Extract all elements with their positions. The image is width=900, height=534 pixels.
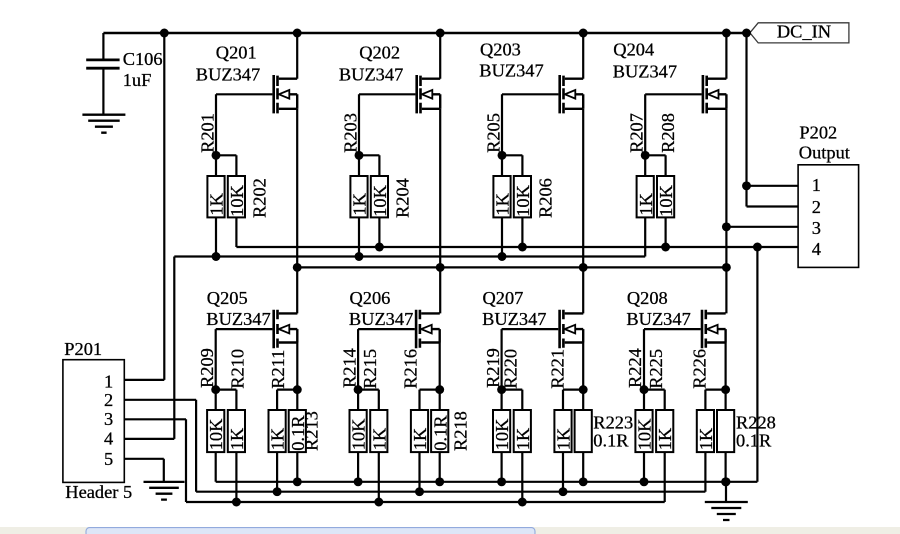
- svg-text:1K: 1K: [369, 427, 389, 450]
- svg-text:BUZ347: BUZ347: [206, 309, 270, 329]
- svg-text:10K: 10K: [513, 184, 533, 216]
- svg-text:R207: R207: [627, 113, 647, 153]
- svg-text:R226: R226: [690, 349, 710, 389]
- svg-text:R206: R206: [535, 178, 555, 218]
- svg-text:R225: R225: [646, 349, 666, 389]
- svg-text:4: 4: [104, 429, 113, 449]
- svg-text:R202: R202: [249, 178, 269, 218]
- svg-text:R215: R215: [360, 349, 380, 389]
- svg-text:Q203: Q203: [480, 39, 521, 59]
- svg-text:R209: R209: [197, 348, 217, 388]
- svg-text:1K: 1K: [513, 427, 533, 450]
- svg-text:1K: 1K: [636, 192, 656, 215]
- svg-text:2: 2: [812, 197, 821, 217]
- svg-text:BUZ347: BUZ347: [613, 62, 677, 82]
- svg-text:1K: 1K: [696, 427, 716, 450]
- svg-text:Q202: Q202: [359, 43, 400, 63]
- svg-text:1K: 1K: [655, 427, 675, 450]
- svg-text:0.1R: 0.1R: [736, 430, 772, 450]
- svg-text:R203: R203: [340, 113, 360, 153]
- svg-text:5: 5: [104, 449, 113, 469]
- svg-text:BUZ347: BUZ347: [482, 309, 546, 329]
- svg-text:BUZ347: BUZ347: [479, 61, 543, 81]
- svg-text:BUZ347: BUZ347: [339, 65, 403, 85]
- svg-text:1K: 1K: [554, 427, 574, 450]
- svg-text:P202: P202: [799, 123, 837, 143]
- svg-text:2: 2: [104, 390, 113, 410]
- svg-text:Output: Output: [799, 143, 850, 163]
- svg-text:10K: 10K: [370, 184, 390, 216]
- svg-text:1K: 1K: [410, 427, 430, 450]
- svg-text:0.1R: 0.1R: [430, 415, 450, 451]
- svg-text:0.1R: 0.1R: [593, 430, 629, 450]
- svg-text:BUZ347: BUZ347: [626, 309, 690, 329]
- svg-text:R204: R204: [392, 178, 412, 218]
- svg-text:R224: R224: [625, 348, 645, 388]
- svg-text:10K: 10K: [349, 418, 369, 450]
- svg-text:R211: R211: [268, 350, 288, 389]
- svg-text:1K: 1K: [268, 427, 288, 450]
- svg-text:BUZ347: BUZ347: [196, 65, 260, 85]
- svg-text:1K: 1K: [350, 192, 370, 215]
- svg-text:R205: R205: [483, 113, 503, 153]
- svg-text:C106: C106: [123, 49, 163, 69]
- svg-text:Q201: Q201: [216, 43, 257, 63]
- svg-text:4: 4: [812, 239, 821, 259]
- svg-text:10K: 10K: [206, 418, 226, 450]
- svg-text:10K: 10K: [635, 418, 655, 450]
- svg-text:10K: 10K: [227, 184, 247, 216]
- svg-text:Q206: Q206: [350, 288, 391, 308]
- svg-text:R213: R213: [301, 411, 321, 451]
- svg-text:1: 1: [104, 371, 113, 391]
- svg-text:3: 3: [104, 409, 113, 429]
- svg-text:R220: R220: [501, 349, 521, 389]
- svg-text:R210: R210: [228, 349, 248, 389]
- svg-text:R208: R208: [658, 113, 678, 153]
- svg-text:1K: 1K: [207, 192, 227, 215]
- svg-text:BUZ347: BUZ347: [349, 309, 413, 329]
- svg-text:1: 1: [812, 175, 821, 195]
- svg-text:Q208: Q208: [627, 288, 668, 308]
- svg-text:P201: P201: [64, 339, 102, 359]
- svg-text:3: 3: [812, 218, 821, 238]
- svg-text:R201: R201: [197, 113, 217, 153]
- svg-text:1K: 1K: [493, 192, 513, 215]
- svg-text:1uF: 1uF: [123, 70, 152, 90]
- svg-text:R221: R221: [547, 349, 567, 389]
- svg-text:R214: R214: [339, 348, 359, 388]
- svg-text:1K: 1K: [227, 427, 247, 450]
- svg-text:DC_IN: DC_IN: [777, 21, 831, 41]
- svg-text:Q207: Q207: [483, 288, 524, 308]
- svg-text:10K: 10K: [656, 184, 676, 216]
- svg-text:10K: 10K: [492, 418, 512, 450]
- svg-text:Header 5: Header 5: [65, 482, 132, 502]
- svg-text:R216: R216: [401, 349, 421, 389]
- svg-text:Q204: Q204: [613, 39, 654, 59]
- svg-text:Q205: Q205: [207, 288, 248, 308]
- svg-text:R218: R218: [451, 411, 471, 451]
